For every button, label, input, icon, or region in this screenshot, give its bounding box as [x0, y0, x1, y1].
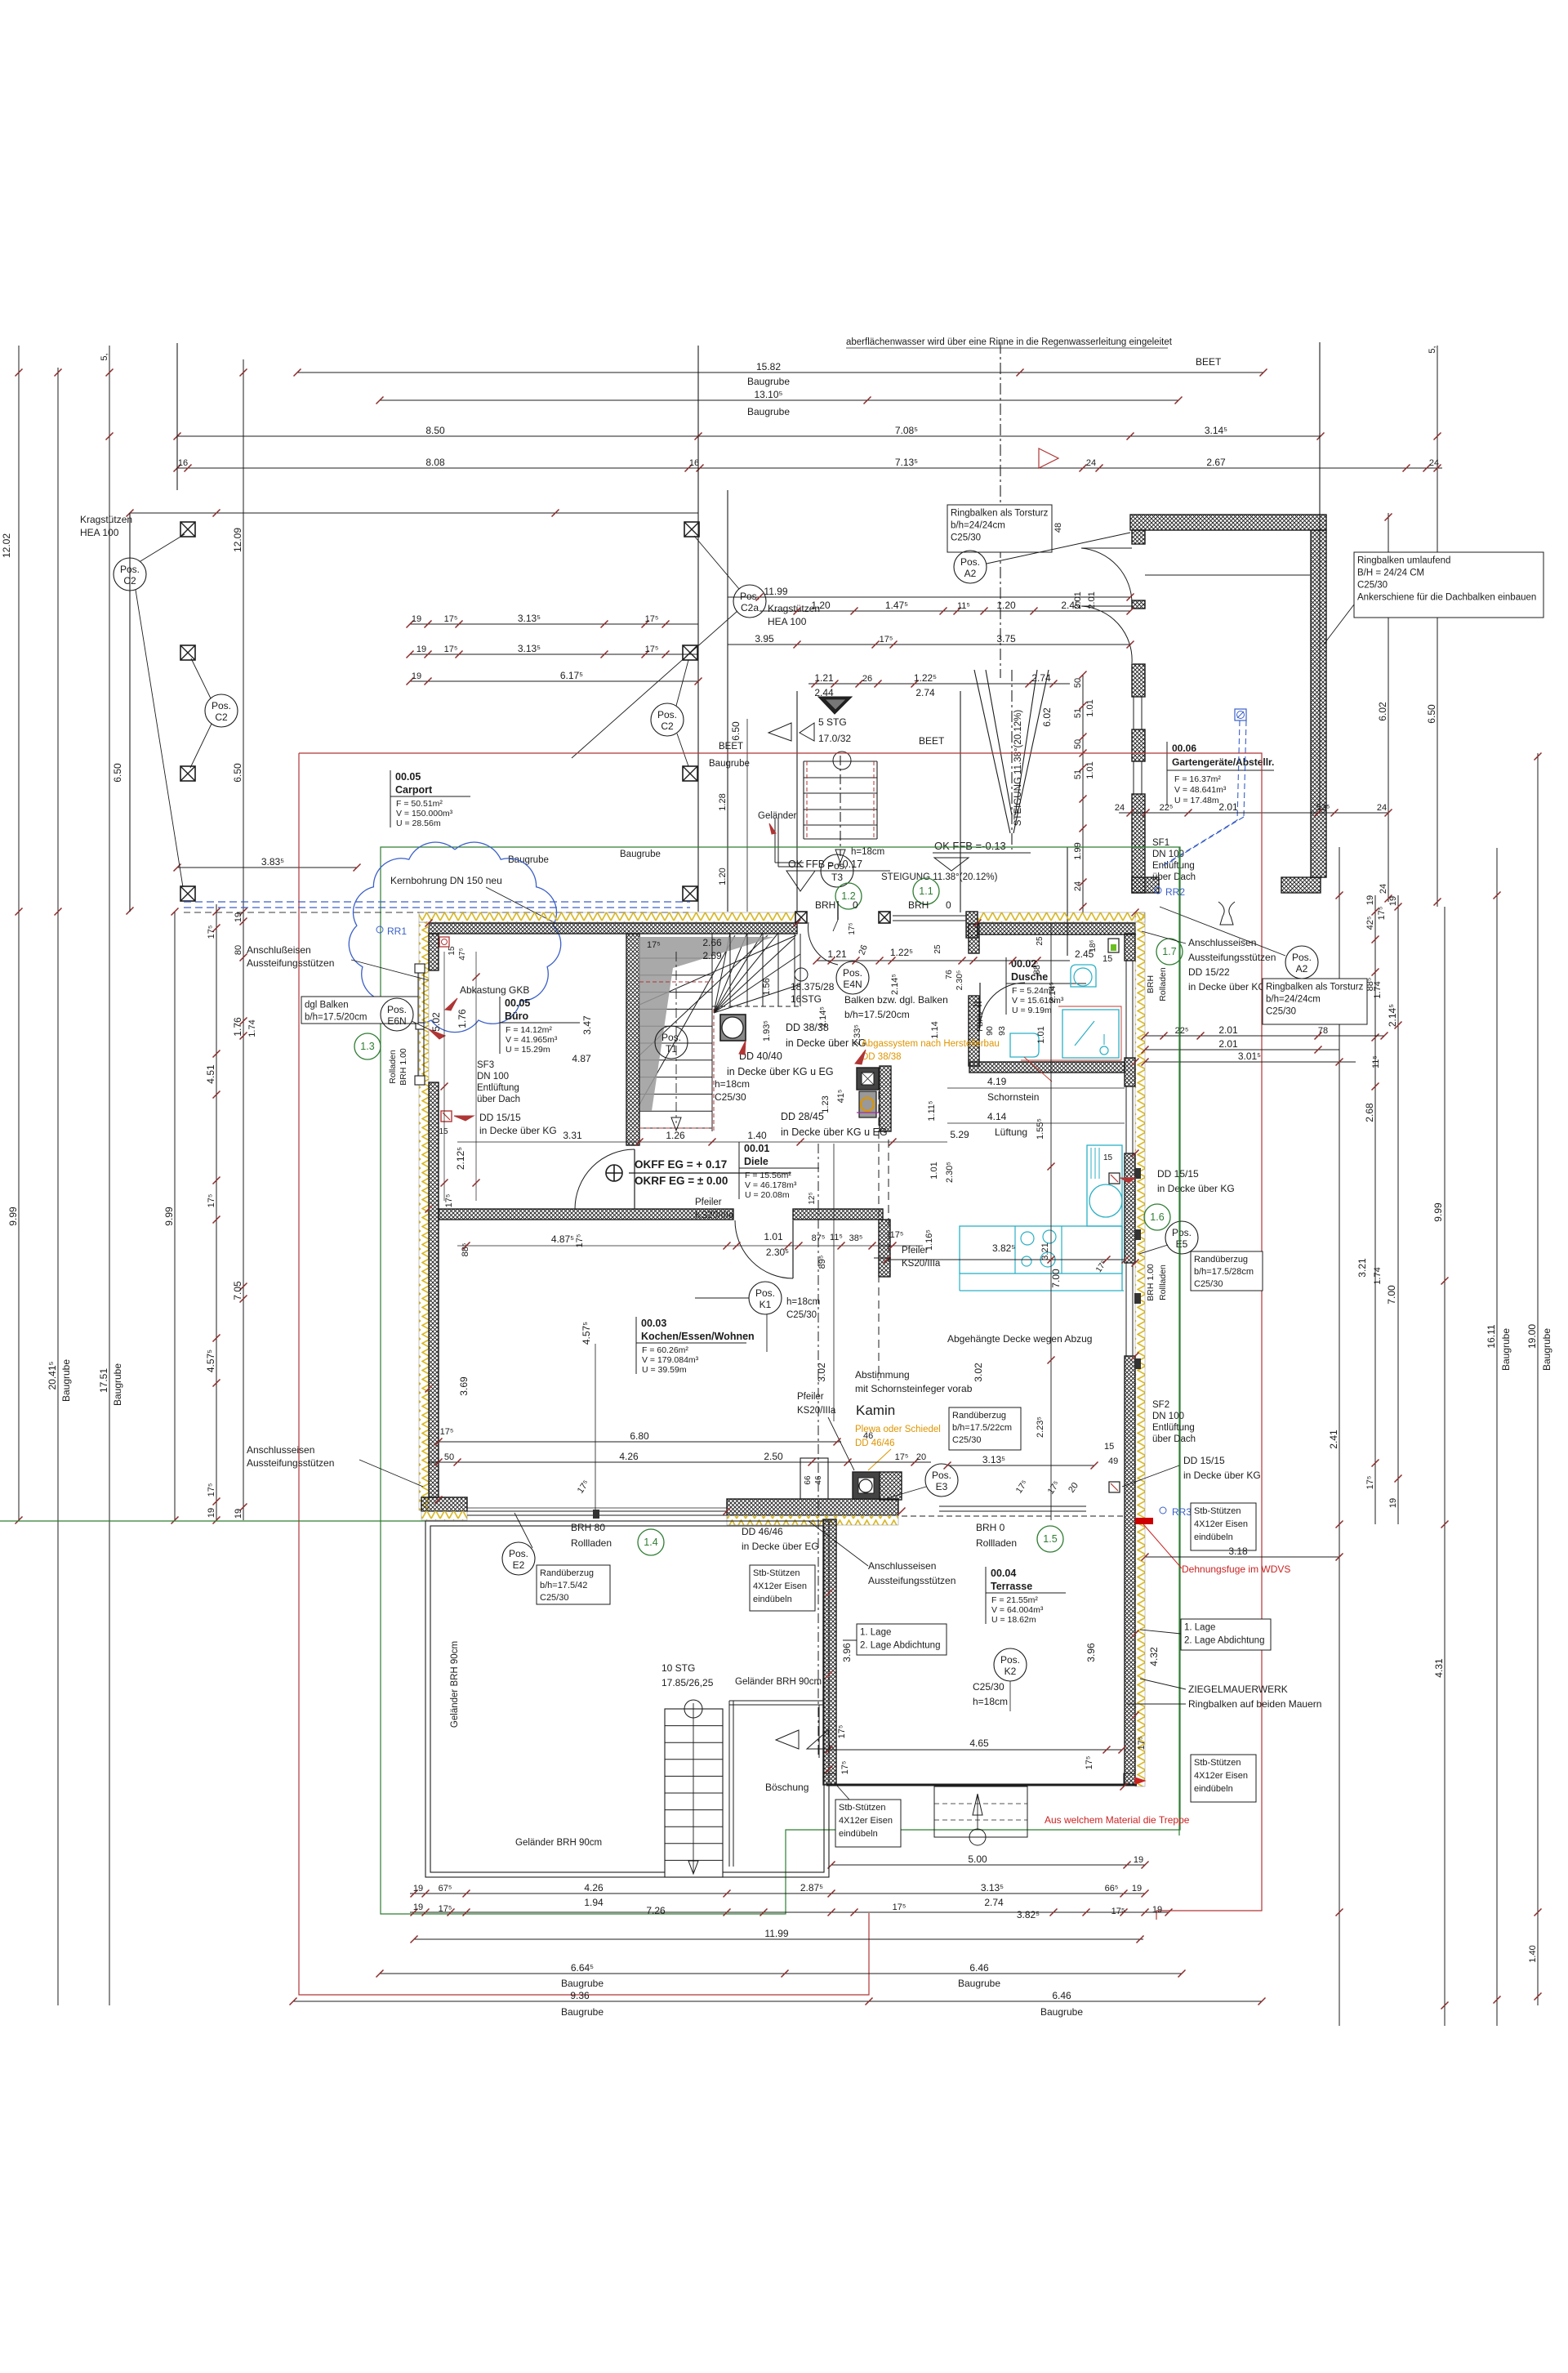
svg-text:17⁵: 17⁵ [1094, 1259, 1109, 1274]
svg-text:2.30⁵: 2.30⁵ [955, 970, 964, 991]
svg-text:C2: C2 [123, 575, 136, 587]
svg-text:Ringbalken auf beiden Mauern: Ringbalken auf beiden Mauern [1188, 1698, 1321, 1710]
svg-text:Entlüftung: Entlüftung [1152, 1423, 1195, 1433]
svg-text:E2: E2 [513, 1559, 525, 1571]
svg-text:OK FFB = +0.17: OK FFB = +0.17 [788, 859, 862, 870]
svg-text:Baugrube: Baugrube [1541, 1328, 1552, 1371]
svg-text:17⁵: 17⁵ [1014, 1479, 1030, 1496]
svg-text:Pos.: Pos. [657, 709, 677, 720]
svg-text:88⁵: 88⁵ [1032, 961, 1042, 975]
svg-text:19: 19 [413, 1884, 423, 1893]
svg-text:1.21: 1.21 [827, 948, 847, 960]
svg-text:OKFF EG = + 0.17: OKFF EG = + 0.17 [635, 1158, 727, 1171]
svg-text:FBHV: FBHV [976, 1010, 985, 1032]
svg-text:48: 48 [1053, 523, 1063, 533]
svg-text:Aus welchem Material die Trepp: Aus welchem Material die Treppe [1045, 1814, 1190, 1826]
svg-text:3.69: 3.69 [458, 1376, 470, 1396]
svg-text:6.02: 6.02 [1041, 707, 1053, 727]
svg-text:RR3: RR3 [1172, 1506, 1192, 1518]
svg-text:Dusche: Dusche [1011, 971, 1048, 983]
svg-text:Pos.: Pos. [509, 1548, 528, 1559]
svg-text:20.41⁵: 20.41⁵ [47, 1361, 58, 1389]
svg-text:2.74: 2.74 [984, 1897, 1004, 1908]
svg-text:38⁵: 38⁵ [849, 1233, 863, 1243]
svg-text:HEA 100: HEA 100 [768, 616, 807, 627]
svg-text:19: 19 [412, 614, 421, 624]
svg-text:Anschlusseisen: Anschlusseisen [868, 1560, 936, 1572]
svg-text:19: 19 [207, 1508, 216, 1518]
svg-text:Randüberzug: Randüberzug [952, 1411, 1006, 1421]
svg-text:22⁵: 22⁵ [1160, 803, 1174, 813]
svg-text:in Decke über KG: in Decke über KG [1157, 1183, 1235, 1194]
svg-text:15.82: 15.82 [756, 361, 781, 372]
svg-text:6.50: 6.50 [730, 721, 742, 741]
svg-text:Baugrube: Baugrube [112, 1363, 123, 1406]
svg-text:17⁵: 17⁵ [1046, 1479, 1062, 1497]
svg-text:76: 76 [944, 970, 954, 979]
svg-text:17⁵: 17⁵ [207, 1483, 216, 1497]
svg-text:Entlüftung: Entlüftung [1152, 861, 1195, 871]
svg-text:1.22⁵: 1.22⁵ [890, 947, 913, 958]
svg-text:b/h=17.5/22cm: b/h=17.5/22cm [952, 1423, 1012, 1433]
svg-text:Pos.: Pos. [1292, 952, 1312, 963]
svg-text:4.87: 4.87 [572, 1053, 591, 1064]
svg-text:b/h=17.5/20cm: b/h=17.5/20cm [305, 1013, 367, 1023]
svg-text:9.99: 9.99 [7, 1207, 19, 1226]
svg-text:4X12er Eisen: 4X12er Eisen [1194, 1771, 1248, 1781]
svg-text:3.96: 3.96 [1085, 1643, 1097, 1662]
svg-text:1.01: 1.01 [1036, 1026, 1046, 1043]
svg-text:3.13⁵: 3.13⁵ [981, 1882, 1004, 1893]
svg-text:Stb-Stützen: Stb-Stützen [1194, 1506, 1241, 1516]
svg-text:b/h=17.5/28cm: b/h=17.5/28cm [1194, 1267, 1254, 1277]
svg-text:3.31: 3.31 [563, 1130, 582, 1141]
svg-text:11⁵: 11⁵ [957, 601, 970, 611]
svg-text:9.36: 9.36 [570, 1990, 590, 2001]
svg-text:19: 19 [412, 671, 421, 681]
svg-text:DD 15/15: DD 15/15 [1157, 1168, 1199, 1180]
svg-text:00.06: 00.06 [1172, 743, 1196, 754]
svg-text:1.47⁵: 1.47⁵ [885, 600, 908, 611]
svg-text:88⁵: 88⁵ [461, 1243, 470, 1257]
svg-text:2.66: 2.66 [702, 937, 722, 948]
svg-text:6.64⁵: 6.64⁵ [571, 1962, 594, 1974]
svg-text:4.19: 4.19 [987, 1076, 1007, 1087]
svg-text:in Decke über KG: in Decke über KG [1183, 1470, 1261, 1481]
svg-text:7.26: 7.26 [646, 1905, 666, 1916]
svg-text:über Dach: über Dach [1152, 1434, 1196, 1444]
svg-text:DD 46/46: DD 46/46 [742, 1526, 783, 1537]
svg-text:00.05: 00.05 [395, 771, 421, 783]
svg-text:15: 15 [439, 1127, 448, 1136]
svg-text:4.51: 4.51 [205, 1064, 216, 1084]
svg-text:Pos.: Pos. [755, 1287, 775, 1299]
svg-text:3.82⁵: 3.82⁵ [1017, 1909, 1040, 1920]
svg-text:00.04: 00.04 [991, 1568, 1016, 1579]
svg-text:Baugrube: Baugrube [709, 759, 750, 769]
svg-text:Dehnungsfuge im WDVS: Dehnungsfuge im WDVS [1182, 1563, 1290, 1575]
svg-text:E6N: E6N [387, 1015, 406, 1027]
svg-text:17⁵: 17⁵ [1377, 907, 1387, 921]
svg-text:8.50: 8.50 [425, 425, 445, 436]
svg-text:19: 19 [234, 1509, 243, 1519]
svg-text:U = 18.62m: U = 18.62m [991, 1615, 1036, 1625]
svg-text:47⁵: 47⁵ [458, 948, 467, 960]
svg-text:F = 60.26m²: F = 60.26m² [642, 1345, 688, 1355]
svg-text:17⁵: 17⁵ [444, 614, 458, 624]
svg-text:41⁵: 41⁵ [836, 1090, 846, 1104]
svg-text:1.74: 1.74 [1373, 981, 1383, 998]
svg-text:Büro: Büro [505, 1010, 529, 1022]
svg-text:3.96: 3.96 [841, 1643, 853, 1662]
svg-text:7.05: 7.05 [232, 1281, 243, 1300]
svg-text:1. Lage: 1. Lage [1184, 1623, 1215, 1633]
svg-text:T3: T3 [831, 872, 843, 883]
svg-text:Baugrube: Baugrube [958, 1978, 1000, 1989]
svg-text:C25/30: C25/30 [973, 1681, 1004, 1693]
svg-text:2. Lage Abdichtung: 2. Lage Abdichtung [860, 1641, 940, 1651]
svg-text:B/H = 24/24 CM: B/H = 24/24 CM [1357, 569, 1424, 578]
svg-text:Baugrube: Baugrube [1040, 2006, 1083, 2018]
svg-text:Abgehängte Decke wegen Abzug: Abgehängte Decke wegen Abzug [947, 1333, 1092, 1345]
svg-text:3.75: 3.75 [996, 633, 1016, 645]
svg-text:DD 28/45: DD 28/45 [781, 1111, 824, 1122]
svg-text:Schornstein: Schornstein [987, 1091, 1039, 1103]
svg-text:DN 100: DN 100 [477, 1072, 509, 1082]
svg-text:SF3: SF3 [477, 1060, 494, 1070]
svg-text:24: 24 [1086, 458, 1096, 468]
svg-text:42⁵: 42⁵ [1365, 917, 1375, 930]
svg-text:2.50: 2.50 [764, 1451, 783, 1462]
svg-text:1.14: 1.14 [930, 1021, 940, 1038]
svg-text:1.22⁵: 1.22⁵ [914, 672, 937, 684]
svg-text:19: 19 [1132, 1884, 1142, 1893]
svg-text:1.76: 1.76 [232, 1017, 243, 1037]
svg-text:17⁵: 17⁵ [840, 1761, 850, 1775]
svg-text:A2: A2 [964, 568, 977, 579]
svg-text:16.11: 16.11 [1486, 1324, 1497, 1348]
svg-text:17⁵: 17⁵ [1365, 1476, 1375, 1490]
svg-text:19.00: 19.00 [1526, 1324, 1538, 1349]
svg-text:0: 0 [946, 899, 951, 911]
svg-text:24: 24 [1073, 881, 1083, 891]
svg-text:SF1: SF1 [1152, 838, 1169, 848]
svg-text:78: 78 [1318, 1026, 1328, 1036]
svg-text:BEET: BEET [1196, 356, 1222, 368]
svg-text:Böschung: Böschung [765, 1782, 808, 1793]
svg-text:2.68: 2.68 [1364, 1103, 1375, 1122]
svg-text:22⁵: 22⁵ [1175, 1026, 1189, 1036]
svg-text:7.13⁵: 7.13⁵ [895, 457, 918, 468]
svg-text:11⁵: 11⁵ [830, 1233, 843, 1242]
svg-text:9.99: 9.99 [163, 1207, 175, 1226]
svg-text:BEET: BEET [719, 742, 743, 752]
svg-text:F = 14.12m²: F = 14.12m² [506, 1025, 552, 1035]
svg-text:Aussteifungsstützen: Aussteifungsstützen [1188, 952, 1276, 963]
svg-text:1.40: 1.40 [747, 1130, 767, 1141]
svg-text:Pos.: Pos. [661, 1032, 681, 1043]
svg-text:HEA 100: HEA 100 [80, 527, 119, 538]
svg-text:BRH 80: BRH 80 [571, 1522, 605, 1533]
svg-text:BRH 1.00: BRH 1.00 [399, 1048, 408, 1086]
svg-text:3.01⁵: 3.01⁵ [1238, 1050, 1261, 1062]
svg-text:V = 150.000m³: V = 150.000m³ [396, 809, 453, 819]
svg-text:C25/30: C25/30 [1357, 581, 1388, 591]
svg-text:Baugrube: Baugrube [561, 2006, 604, 2018]
svg-text:10 STG: 10 STG [661, 1662, 695, 1674]
svg-text:eindübeln: eindübeln [839, 1829, 878, 1839]
svg-text:24: 24 [1379, 884, 1388, 894]
svg-text:STEIGUNG 11.38°(20.12%): STEIGUNG 11.38°(20.12%) [881, 872, 998, 882]
svg-text:2.01: 2.01 [1218, 1038, 1238, 1050]
svg-text:E3: E3 [936, 1481, 948, 1492]
svg-text:Aussteifungsstützen: Aussteifungsstützen [247, 1457, 334, 1469]
svg-text:19: 19 [416, 645, 426, 654]
svg-text:in Decke über KG: in Decke über KG [479, 1125, 557, 1136]
svg-text:24: 24 [1115, 803, 1125, 813]
svg-text:eindübeln: eindübeln [1194, 1532, 1233, 1542]
svg-text:6.50: 6.50 [232, 763, 243, 783]
svg-text:1.5: 1.5 [1043, 1533, 1057, 1545]
svg-text:9.99: 9.99 [1432, 1202, 1444, 1222]
svg-text:Rollladen: Rollladen [1158, 1265, 1168, 1300]
svg-text:50: 50 [1073, 678, 1083, 688]
svg-text:17⁵: 17⁵ [837, 1725, 847, 1739]
svg-text:3.95: 3.95 [755, 633, 774, 645]
svg-text:17⁵: 17⁵ [576, 1479, 591, 1496]
svg-text:18⁶: 18⁶ [1089, 939, 1098, 952]
svg-text:Terrasse: Terrasse [991, 1581, 1032, 1592]
svg-text:17⁵: 17⁵ [1111, 1907, 1125, 1916]
svg-text:18.375/28: 18.375/28 [791, 981, 835, 992]
svg-text:DD 46/46: DD 46/46 [855, 1439, 895, 1448]
svg-text:4.14: 4.14 [987, 1111, 1007, 1122]
svg-text:K1: K1 [759, 1299, 772, 1310]
svg-text:19: 19 [1365, 895, 1375, 905]
svg-text:eindübeln: eindübeln [753, 1595, 792, 1604]
svg-text:1.40: 1.40 [1528, 1945, 1538, 1962]
svg-text:Pos.: Pos. [827, 860, 847, 872]
svg-text:6.17⁵: 6.17⁵ [560, 670, 583, 681]
svg-text:Geländer BRH 90cm: Geländer BRH 90cm [450, 1641, 460, 1728]
svg-text:2.30⁵: 2.30⁵ [945, 1162, 955, 1183]
svg-text:Ankerschiene für die Dachbalke: Ankerschiene für die Dachbalken einbauen [1357, 593, 1536, 603]
svg-text:C25/30: C25/30 [540, 1593, 568, 1603]
svg-text:C25/30: C25/30 [715, 1091, 746, 1103]
svg-text:OK FFB =-0.13: OK FFB =-0.13 [934, 840, 1006, 852]
svg-text:Abkastung GKB: Abkastung GKB [460, 984, 529, 996]
svg-text:1.7: 1.7 [1162, 946, 1176, 957]
svg-text:4.57⁵: 4.57⁵ [581, 1322, 592, 1345]
svg-text:2.74: 2.74 [915, 687, 935, 698]
svg-text:U = 20.08m: U = 20.08m [745, 1190, 790, 1200]
svg-text:Rolladen: Rolladen [1158, 967, 1168, 1001]
svg-text:3.47: 3.47 [581, 1015, 593, 1035]
svg-text:2.69: 2.69 [702, 950, 722, 961]
svg-text:1.20: 1.20 [811, 600, 831, 611]
svg-text:15: 15 [1104, 1442, 1114, 1452]
svg-text:Ringbalken als Torsturz: Ringbalken als Torsturz [951, 509, 1049, 519]
svg-text:5.00: 5.00 [968, 1853, 987, 1865]
svg-text:1.11⁵: 1.11⁵ [927, 1100, 937, 1121]
svg-text:A2: A2 [1296, 963, 1308, 975]
svg-text:1.20: 1.20 [996, 600, 1016, 611]
svg-text:53⁵: 53⁵ [1316, 803, 1330, 813]
svg-text:Pos.: Pos. [843, 967, 862, 979]
svg-text:Entlüftung: Entlüftung [477, 1083, 519, 1093]
svg-text:17⁵: 17⁵ [893, 1902, 906, 1912]
svg-text:26: 26 [857, 943, 869, 957]
svg-text:1.3: 1.3 [360, 1041, 374, 1052]
svg-text:4.32: 4.32 [1148, 1647, 1160, 1666]
svg-text:25: 25 [1036, 936, 1045, 946]
svg-text:7.00: 7.00 [1050, 1269, 1062, 1288]
svg-text:17⁵: 17⁵ [1137, 1737, 1147, 1751]
svg-text:Anschlusseisen: Anschlusseisen [1188, 937, 1256, 948]
svg-text:46: 46 [814, 1475, 823, 1485]
svg-text:16: 16 [689, 458, 699, 468]
svg-text:Pfeiler: Pfeiler [797, 1392, 824, 1402]
svg-text:U = 39.59m: U = 39.59m [642, 1365, 687, 1375]
svg-text:DN 100: DN 100 [1152, 1412, 1184, 1421]
svg-text:2.33⁵: 2.33⁵ [853, 1024, 862, 1046]
svg-text:Diele: Diele [744, 1156, 768, 1167]
svg-text:89⁵: 89⁵ [817, 1256, 827, 1269]
svg-text:93: 93 [997, 1026, 1007, 1036]
svg-text:1.01: 1.01 [929, 1162, 939, 1179]
svg-text:RR2: RR2 [1165, 886, 1185, 898]
svg-text:3.13⁵: 3.13⁵ [518, 643, 541, 654]
svg-text:Abgassystem nach Herstellerbau: Abgassystem nach Herstellerbau [862, 1039, 1000, 1049]
svg-text:17⁵: 17⁵ [848, 922, 857, 934]
svg-text:RR1: RR1 [387, 926, 407, 937]
svg-text:b/h=24/24cm: b/h=24/24cm [1266, 995, 1321, 1005]
svg-text:8.08: 8.08 [425, 457, 445, 468]
svg-text:Geländer: Geländer [758, 811, 796, 821]
svg-text:DD 38/38: DD 38/38 [862, 1052, 902, 1062]
svg-text:1.74: 1.74 [1373, 1267, 1383, 1284]
svg-text:F = 50.51m²: F = 50.51m² [396, 799, 443, 809]
svg-text:Balken bzw. dgl. Balken: Balken bzw. dgl. Balken [844, 994, 948, 1006]
svg-text:67⁵: 67⁵ [439, 1884, 452, 1893]
svg-text:Abstimmung: Abstimmung [855, 1369, 910, 1381]
svg-text:1.99: 1.99 [1073, 842, 1083, 859]
svg-text:U = 17.48m: U = 17.48m [1174, 796, 1219, 805]
svg-text:1.94: 1.94 [584, 1897, 604, 1908]
svg-text:90: 90 [985, 1026, 995, 1036]
svg-text:Anschlusseisen: Anschlusseisen [247, 1444, 314, 1456]
svg-text:51: 51 [1073, 708, 1083, 718]
svg-text:2.01: 2.01 [1073, 591, 1083, 609]
svg-text:17⁵: 17⁵ [645, 645, 659, 654]
svg-text:Ringbalken als Torsturz: Ringbalken als Torsturz [1266, 983, 1364, 992]
svg-text:Geländer BRH 90cm: Geländer BRH 90cm [735, 1677, 822, 1687]
svg-text:19: 19 [1134, 1855, 1143, 1865]
svg-text:BRH 1.00: BRH 1.00 [1146, 1264, 1156, 1301]
svg-text:00.01: 00.01 [744, 1143, 769, 1154]
svg-text:1. Lage: 1. Lage [860, 1628, 891, 1638]
svg-text:17⁵: 17⁵ [1085, 1756, 1094, 1770]
svg-text:1.01: 1.01 [764, 1231, 783, 1242]
svg-text:C25/30: C25/30 [951, 533, 981, 543]
svg-text:5.29: 5.29 [950, 1129, 969, 1140]
svg-text:K2: K2 [1004, 1666, 1017, 1677]
svg-text:Pos.: Pos. [212, 700, 231, 711]
svg-text:1.76: 1.76 [457, 1009, 468, 1028]
svg-text:2.01: 2.01 [1218, 801, 1238, 813]
svg-text:Pfeiler: Pfeiler [695, 1198, 722, 1207]
svg-text:3.83⁵: 3.83⁵ [261, 856, 284, 868]
svg-text:ZIEGELMAUERWERK: ZIEGELMAUERWERK [1188, 1684, 1288, 1695]
svg-text:V = 64.004m³: V = 64.004m³ [991, 1605, 1044, 1615]
svg-text:11.99: 11.99 [764, 586, 787, 597]
svg-text:1.28: 1.28 [718, 793, 728, 810]
svg-text:BRH: BRH [1146, 975, 1156, 993]
svg-text:1.01: 1.01 [1085, 699, 1095, 716]
svg-text:19: 19 [1388, 1498, 1398, 1508]
svg-text:h=18cm: h=18cm [851, 847, 884, 857]
svg-text:19: 19 [413, 1902, 423, 1912]
svg-text:Baugrube: Baugrube [60, 1359, 72, 1402]
svg-text:2.41: 2.41 [1328, 1430, 1339, 1449]
svg-text:4.57⁵: 4.57⁵ [205, 1349, 216, 1372]
svg-text:Kochen/Essen/Wohnen: Kochen/Essen/Wohnen [641, 1331, 755, 1342]
svg-text:3.21: 3.21 [1040, 1242, 1050, 1260]
svg-text:3.13⁵: 3.13⁵ [518, 613, 541, 624]
svg-text:1.1: 1.1 [919, 885, 933, 897]
svg-text:Stb-Stützen: Stb-Stützen [839, 1803, 885, 1813]
svg-text:4.87⁵: 4.87⁵ [551, 1233, 574, 1245]
svg-text:E4N: E4N [843, 979, 862, 990]
svg-text:0: 0 [853, 899, 858, 911]
svg-text:2. Lage Abdichtung: 2. Lage Abdichtung [1184, 1636, 1264, 1646]
svg-text:17⁵: 17⁵ [439, 1904, 452, 1914]
svg-text:in Decke über KG u EG: in Decke über KG u EG [727, 1066, 834, 1077]
svg-text:T1: T1 [666, 1043, 677, 1055]
svg-text:4X12er Eisen: 4X12er Eisen [1194, 1519, 1248, 1529]
svg-text:C25/30: C25/30 [1266, 1007, 1296, 1017]
svg-text:4.65: 4.65 [969, 1737, 989, 1749]
svg-text:46: 46 [863, 1431, 873, 1441]
svg-text:17⁵: 17⁵ [880, 635, 893, 645]
svg-text:C25/30: C25/30 [1194, 1279, 1223, 1289]
svg-text:h=18cm: h=18cm [973, 1696, 1008, 1707]
svg-text:12.09: 12.09 [232, 528, 243, 552]
svg-text:Randüberzug: Randüberzug [1194, 1255, 1248, 1265]
svg-text:3.14⁵: 3.14⁵ [1205, 425, 1227, 436]
svg-text:4.26: 4.26 [619, 1451, 639, 1462]
svg-text:2.87⁵: 2.87⁵ [800, 1882, 823, 1893]
svg-text:V = 48.641m³: V = 48.641m³ [1174, 785, 1227, 795]
svg-text:Kragstützen: Kragstützen [80, 514, 132, 525]
svg-text:Pos.: Pos. [1172, 1227, 1192, 1238]
svg-text:2.01: 2.01 [1218, 1024, 1238, 1036]
svg-text:1.74: 1.74 [247, 1019, 257, 1037]
svg-text:über Dach: über Dach [477, 1095, 520, 1104]
svg-text:OKRF EG = ± 0.00: OKRF EG = ± 0.00 [635, 1175, 728, 1187]
svg-text:U = 9.19m: U = 9.19m [1012, 1006, 1052, 1015]
svg-text:aberflächenwasser wird über ei: aberflächenwasser wird über eine Rinne i… [846, 337, 1173, 347]
svg-text:F = 15.56m²: F = 15.56m² [745, 1171, 791, 1180]
svg-text:über Dach: über Dach [1152, 872, 1196, 882]
svg-text:Gartengeräte/Abstellr.: Gartengeräte/Abstellr. [1172, 756, 1274, 768]
svg-text:Stb-Stützen: Stb-Stützen [1194, 1758, 1241, 1768]
svg-text:2.23⁵: 2.23⁵ [1036, 1416, 1045, 1438]
svg-text:Rollladen: Rollladen [976, 1537, 1017, 1549]
svg-text:24: 24 [1377, 803, 1387, 813]
svg-text:6.02: 6.02 [1377, 702, 1388, 721]
svg-text:19: 19 [234, 912, 243, 922]
